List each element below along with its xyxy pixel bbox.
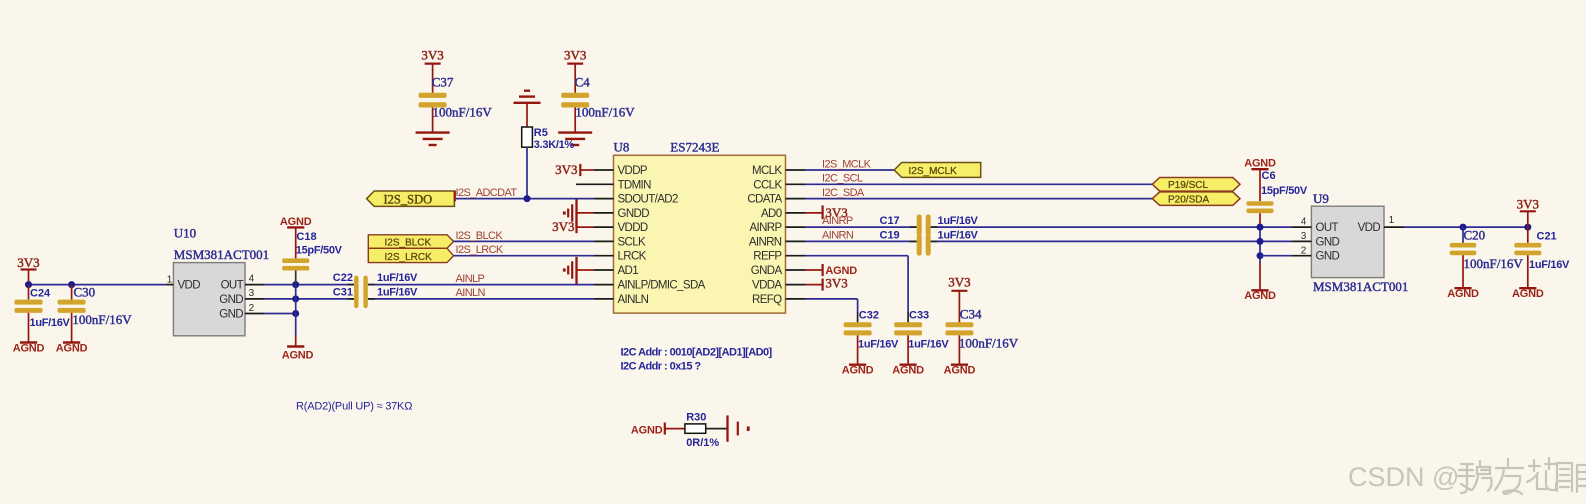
power AGND (above C18) [280,216,312,258]
ground (AD1 pin, rotated) [563,257,594,284]
svg-text:I2S_LRCK: I2S_LRCK [456,244,504,256]
svg-text:I2S_LRCK: I2S_LRCK [385,252,433,263]
wire I2S_MCLK (MCLK) [805,158,894,170]
capacitor C30 [58,285,133,343]
svg-text:GND: GND [1316,236,1340,248]
ground AGND (C30) [56,342,88,354]
svg-text:3V3: 3V3 [825,276,847,291]
power 3V3 (C37) [421,48,443,93]
capacitor C20 [1450,227,1524,288]
svg-text:P19/SCL: P19/SCL [1168,180,1208,191]
wire (U10 GND2 to column) [264,313,296,315]
svg-text:AGND: AGND [1244,290,1276,302]
svg-text:TDMIN: TDMIN [618,179,652,191]
svg-text:I2C Addr : 0010[AD2][AD1][AD0]: I2C Addr : 0010[AD2][AD1][AD0] [621,346,773,358]
power 3V3 (C34) [948,275,970,323]
svg-text:AGND: AGND [56,342,88,354]
power AGND (R30) [631,423,685,437]
capacitor C33 [894,309,949,364]
svg-text:R(AD2)(Pull UP) ≈ 37KΩ: R(AD2)(Pull UP) ≈ 37KΩ [296,401,412,413]
svg-text:AGND: AGND [892,365,924,377]
svg-text:I2S_BLCK: I2S_BLCK [385,238,432,249]
svg-text:1uF/16V: 1uF/16V [377,272,418,284]
svg-text:AINLP: AINLP [456,273,485,285]
ground AGND (below C6) [1244,290,1276,302]
svg-text:LRCK: LRCK [618,251,647,263]
wire column (C6 to AGND) [1259,227,1261,290]
svg-text:C24: C24 [30,288,51,300]
svg-text:I2S_SDO: I2S_SDO [384,192,433,206]
svg-text:AINRN: AINRN [822,230,854,242]
svg-text:MCLK: MCLK [752,165,782,177]
resistor R30 0R/1% [685,412,720,450]
wire (R30 to ground) [706,428,728,430]
svg-text:OUT: OUT [221,280,244,292]
svg-text:1uF/16V: 1uF/16V [858,339,899,351]
power 3V3 (C4) [564,48,586,93]
svg-text:2: 2 [249,303,255,314]
mic U10 MSM381ACT001 [166,225,269,335]
svg-text:100nF/16V: 100nF/16V [575,105,635,120]
svg-text:C18: C18 [296,231,316,243]
ground (above R5, inverted) [514,91,541,127]
wire AINLN (to AINLN) [368,287,594,299]
svg-text:3V3: 3V3 [421,48,443,63]
wire (U10 GND3 to C31) [264,298,354,300]
svg-text:I2C Addr : 0x15 ?: I2C Addr : 0x15 ? [621,360,702,372]
svg-text:2: 2 [1301,245,1307,256]
svg-text:VDD: VDD [1358,222,1381,234]
svg-text:I2S_BLCK: I2S_BLCK [456,230,504,242]
svg-text:U8: U8 [614,140,630,155]
svg-text:OUT: OUT [1316,222,1339,234]
svg-text:SDOUT/AD2: SDOUT/AD2 [618,194,678,206]
svg-text:AGND: AGND [1512,288,1544,300]
ground AGND (below U10) [282,347,314,362]
svg-text:VDDA: VDDA [752,280,782,292]
ground AGND (C24) [13,342,45,354]
svg-text:AGND: AGND [944,365,976,377]
svg-text:SCLK: SCLK [618,236,647,248]
svg-text:1uF/16V: 1uF/16V [938,215,979,227]
svg-text:C19: C19 [880,230,900,242]
svg-text:C4: C4 [575,75,591,90]
svg-text:3V3: 3V3 [1517,196,1539,211]
wire I2C_SDA (CDATA) [805,187,1152,199]
ground (C37) [416,133,450,145]
ground AGND (C20) [1447,288,1479,300]
svg-text:ES7243E: ES7243E [670,140,719,155]
wire column (C18 to AGND) [295,270,297,347]
power 3V3 (VDDP pin) [555,162,594,177]
svg-text:CDATA: CDATA [747,194,782,206]
svg-text:C31: C31 [333,287,353,299]
svg-text:100nF/16V: 100nF/16V [433,105,493,120]
svg-text:CSDN @: CSDN @ [1348,462,1459,492]
svg-text:15pF/50V: 15pF/50V [296,245,343,257]
svg-text:3: 3 [249,288,255,299]
svg-text:GND: GND [219,294,243,306]
port I2S_BLCK [368,235,453,249]
port P20/SDA [1152,192,1240,206]
svg-text:1: 1 [1389,215,1395,226]
svg-text:1: 1 [167,274,173,285]
svg-text:I2C_SCL: I2C_SCL [822,173,863,185]
watermark CSDN [1348,458,1586,494]
junction (AINLN) [292,295,299,302]
junction (GND2) [292,310,299,317]
junction (C18/AINLP) [292,281,299,288]
svg-text:GND: GND [219,309,243,321]
svg-text:1uF/16V: 1uF/16V [908,339,949,351]
svg-text:REFP: REFP [753,251,782,263]
port P19/SCL [1152,178,1240,192]
svg-text:1uF/16V: 1uF/16V [30,317,71,329]
svg-text:AGND: AGND [1447,288,1479,300]
svg-text:1uF/16V: 1uF/16V [377,287,418,299]
junction (C21 node) [1524,224,1531,231]
power AGND (GNDA pin) [805,264,857,277]
svg-text:I2S_MCLK: I2S_MCLK [822,158,872,170]
svg-text:VDDD: VDDD [618,222,648,234]
wire leads (C17/C19 black) [910,226,917,228]
capacitor C37 [419,75,493,133]
ground (C4) [558,133,592,145]
svg-text:3: 3 [1301,231,1307,242]
wire (C19 to U9 GND3) [931,240,1292,242]
svg-text:AINLP/DMIC_SDA: AINLP/DMIC_SDA [618,280,706,292]
svg-text:AGND: AGND [1244,158,1276,170]
junction (C24 node) [25,281,32,288]
ground AGND (C32) [842,365,874,377]
wire I2S_LRCK (LRCK) [454,244,594,256]
wire (U9 VDD to 3V3) [1404,226,1528,228]
svg-text:AGND: AGND [13,342,45,354]
junction (U9 GND3) [1257,238,1264,245]
wire I2S_BLCK (SCLK) [454,230,594,242]
svg-text:U10: U10 [174,225,196,240]
wire AINRN (AINRN row) [805,230,979,242]
svg-text:C20: C20 [1464,227,1486,242]
ground (R30, rotated) [728,415,750,441]
svg-text:C6: C6 [1262,170,1276,182]
svg-text:GNDA: GNDA [751,265,783,277]
ground AGND (C34) [944,365,976,377]
svg-text:3V3: 3V3 [564,48,586,63]
svg-text:100nF/16V: 100nF/16V [72,312,132,327]
svg-text:VDDP: VDDP [618,165,648,177]
power 3V3 (VDDA pin) [805,276,848,291]
wire AINRP (AINRP row) [805,215,917,227]
mic U9 MSM381ACT001 [1291,191,1408,294]
power AGND (above C6) [1244,158,1276,202]
svg-text:I2S_ADCDAT: I2S_ADCDAT [456,187,518,199]
capacitor C21 [1514,227,1570,288]
svg-text:AINRP: AINRP [749,222,782,234]
ground (GNDD pin, rotated) [563,199,594,227]
capacitor C18 [282,231,342,271]
wire I2C_SCL (CCLK) [805,173,1152,185]
svg-text:C34: C34 [960,306,982,321]
capacitor C6 [1247,170,1308,227]
svg-text:AINRP: AINRP [822,215,853,227]
capacitor C4 [561,75,635,133]
port I2S_LRCK [368,248,453,263]
wire (REFQ to C32) [805,299,858,323]
svg-text:0R/1%: 0R/1% [686,437,719,449]
svg-text:3V3: 3V3 [555,162,577,177]
wire (REFP to C33) [805,256,908,323]
ground AGND (C21) [1512,288,1544,300]
svg-text:C22: C22 [333,272,353,284]
svg-text:100nF/16V: 100nF/16V [1464,256,1524,271]
svg-text:C30: C30 [74,285,96,300]
port I2S_MCLK [894,163,981,178]
wire AINLP (to AINLP/DMIC_SDA) [368,273,594,285]
svg-text:3V3: 3V3 [948,275,970,290]
junction (U9 OUT) [1257,224,1264,231]
capacitor C24 [15,285,71,343]
op-amp/IC U8 ES7243E [594,140,805,314]
capacitor C31 [333,287,418,309]
junction (R5/SDOUT) [524,195,531,202]
svg-text:I2C_SDA: I2C_SDA [822,187,865,199]
svg-text:REFQ: REFQ [752,294,782,306]
svg-text:AINLN: AINLN [618,294,649,306]
svg-text:4: 4 [249,274,255,285]
svg-text:4: 4 [1301,217,1307,228]
svg-text:AD1: AD1 [618,265,639,277]
svg-text:MSM381ACT001: MSM381ACT001 [174,247,269,262]
svg-text:AD0: AD0 [761,208,782,220]
svg-text:15pF/50V: 15pF/50V [1261,185,1308,197]
svg-text:GNDD: GNDD [618,208,650,220]
svg-text:C33: C33 [909,309,929,321]
junction (C30 node) [68,281,75,288]
capacitor C32 [844,309,899,364]
ground AGND (C33) [892,365,924,377]
resistor R5 3.3K/1% [522,127,575,151]
wire I2S_ADCDAT (SDOUT/AD2) [456,187,595,199]
wire (C17 to U9 OUT) [931,226,1292,228]
svg-text:C17: C17 [880,215,900,227]
junction (C20 node) [1460,224,1467,231]
svg-text:100nF/16V: 100nF/16V [959,336,1019,351]
svg-text:C32: C32 [859,309,879,321]
svg-text:1uF/16V: 1uF/16V [938,230,979,242]
wire (TDMIN nc stub) [576,183,594,185]
wire (dot to U9 GND2) [1260,255,1291,257]
wire (U10 OUT to C22) [264,284,354,286]
capacitor C22 [333,272,418,294]
svg-text:R5: R5 [534,127,548,139]
port I2S_SDO [367,191,455,207]
svg-text:AGND: AGND [631,424,663,436]
svg-text:AINLN: AINLN [456,287,486,299]
svg-text:1uF/16V: 1uF/16V [1529,259,1570,271]
svg-text:3V3: 3V3 [17,255,39,270]
svg-text:R30: R30 [686,412,706,424]
capacitor C17 [917,214,979,236]
power 3V3 (AD0 pin) [805,205,848,220]
power 3V3 (U9 VDD) [1517,196,1539,227]
svg-text:3V3: 3V3 [552,219,574,234]
svg-text:CCLK: CCLK [753,179,782,191]
capacitor C34 [945,306,1018,364]
capacitor C19 plates [917,214,931,255]
svg-text:AINRN: AINRN [749,236,782,248]
svg-text:U9: U9 [1313,191,1329,206]
wire (R5 to SDOUT net) [526,147,528,198]
svg-text:MSM381ACT001: MSM381ACT001 [1313,279,1408,294]
wire leads (C22/C31 black) [348,284,355,286]
svg-text:VDD: VDD [178,280,201,292]
svg-text:GND: GND [1316,251,1340,263]
svg-text:3.3K/1%: 3.3K/1% [534,139,575,151]
junction (U9 GND2) [1257,252,1264,259]
power 3V3 (VDDD pin) [552,219,594,234]
svg-text:C37: C37 [432,75,454,90]
svg-text:C21: C21 [1537,230,1557,242]
svg-text:P20/SDA: P20/SDA [1168,194,1209,205]
power 3V3 (U10 supply) [17,255,39,284]
svg-text:I2S_MCLK: I2S_MCLK [909,166,958,177]
svg-text:AGND: AGND [282,349,314,361]
wire (3V3 to U10 VDD) [29,284,167,286]
svg-text:AGND: AGND [842,365,874,377]
